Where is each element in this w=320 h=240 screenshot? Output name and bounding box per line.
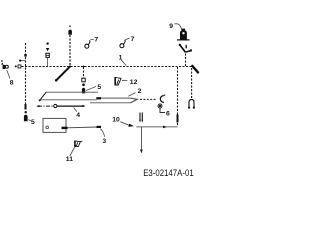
wire: harness main horizontal run (dashed) <box>22 66 192 68</box>
wire: leader from label 1 to harness <box>121 60 126 66</box>
wire: leader to label 3 <box>100 129 104 137</box>
wire: dashed link from strap tip to hook 6 <box>140 98 157 100</box>
key 9 (ignition key on switch) <box>177 29 190 40</box>
connector 8 (plug with ring) <box>1 60 8 69</box>
svg-text:4: 4 <box>76 112 80 119</box>
node: dot and small square connector at left end of main run <box>15 65 17 67</box>
svg-text:5: 5 <box>97 84 101 91</box>
wire: short stub with dot into left branch <box>21 60 26 62</box>
svg-text:8: 8 <box>10 80 14 87</box>
connector cap at top of upper branch <box>69 25 71 27</box>
svg-text:6: 6 <box>166 111 170 118</box>
svg-text:11: 11 <box>66 156 73 163</box>
harness strap: upper-right edge to tip <box>101 98 136 99</box>
wire: leader to label 8 <box>7 70 10 79</box>
wire: leader to upper label 5 <box>86 87 96 91</box>
wire: thick stub below harness junction <box>56 67 70 81</box>
svg-text:2: 2 <box>138 88 142 95</box>
node: pointed tip of strap <box>131 98 138 103</box>
harness strap: middle splice blob <box>96 97 101 99</box>
svg-text:7: 7 <box>94 37 98 44</box>
wire: leader to label 12 <box>122 79 127 81</box>
wire: short drop to square plug 5 (dashed) <box>83 67 85 78</box>
cable 3 (from box to arrow) <box>62 127 102 128</box>
battery cable 10 (thin lines with arrows) <box>136 113 177 154</box>
cable tie 11 (flag) <box>74 141 82 147</box>
ignition switch terminals (Y strokes) <box>179 44 192 52</box>
battery box terminal circle <box>46 126 49 129</box>
wire: leader to right label 7 <box>125 38 129 40</box>
svg-text:7: 7 <box>131 36 135 43</box>
cable tie 12 (flag) <box>115 77 121 85</box>
connector 5 (upper: square, dot, sleeve) <box>82 78 85 93</box>
wire: left vertical harness branch (dashed) <box>25 43 27 104</box>
wire: leader from label 10 with arrowhead <box>120 122 128 125</box>
wire: switch drop to harness (dashed) <box>185 54 187 67</box>
node: tick on left vertical branch <box>24 54 26 57</box>
hook 7 (right clip) <box>120 40 125 48</box>
wire: leader from label 9 to key <box>175 24 182 30</box>
svg-text:5: 5 <box>31 119 35 126</box>
hook 7 (left clip) <box>85 40 90 48</box>
svg-text:3: 3 <box>102 138 106 145</box>
harness strap: lower-right edge to tip <box>90 100 136 103</box>
wire: leader to label 11 <box>70 147 75 156</box>
wire: leader to label 4 <box>74 108 77 112</box>
wire: right drop to U-connector (dashed) <box>191 68 193 99</box>
harness strap: left bevel end <box>40 92 46 100</box>
svg-text:9: 9 <box>169 23 173 30</box>
wire: harness right end thick stub <box>192 66 198 73</box>
rod 4 (long pin with ring) <box>36 104 85 107</box>
harness strap: top edge <box>46 91 98 93</box>
connector stack on harness top (dot, arrowhead, square plug) <box>46 42 50 66</box>
harness strap: bottom edge <box>40 99 96 101</box>
hook 6 (C-clip with grommet) <box>158 95 165 113</box>
wire: leader to left label 5 <box>28 119 31 122</box>
svg-text:E3-02147A-01: E3-02147A-01 <box>143 168 194 178</box>
connector 5 (left: sleeve, dot, plug below left branch) <box>24 104 28 121</box>
battery box <box>43 118 66 132</box>
connector: U terminal at right <box>188 100 195 109</box>
wire: mid-right drop (dashed) <box>177 67 179 127</box>
connector: solid sleeve at bottom of mid-right drop <box>177 115 179 123</box>
svg-text:12: 12 <box>130 79 138 86</box>
wire: upper vertical branch (dashed) <box>69 35 71 67</box>
wire: leader to left label 7 <box>91 39 94 41</box>
svg-text:10: 10 <box>112 117 120 124</box>
wire: leader to label 2 <box>128 93 135 97</box>
